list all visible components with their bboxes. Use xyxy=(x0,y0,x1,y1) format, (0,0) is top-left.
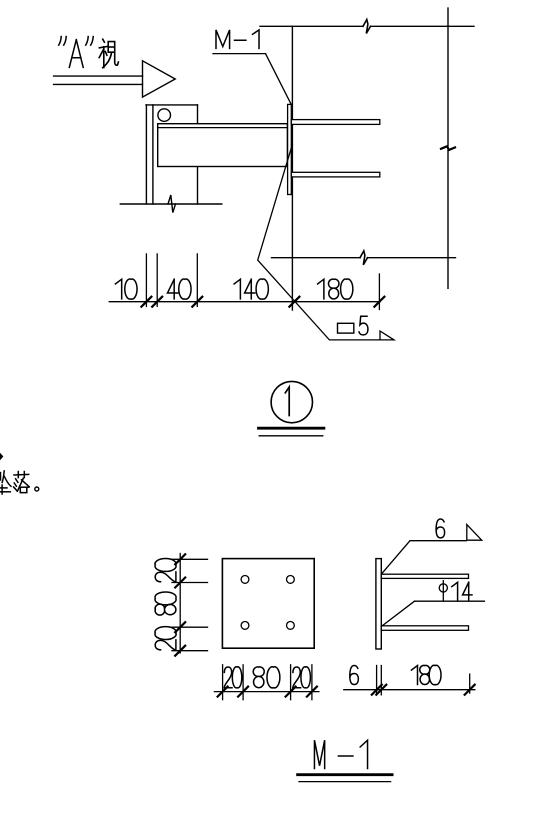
bracket top plate line xyxy=(146,104,198,106)
dim ticks xyxy=(141,297,384,307)
plug weld rectangle symbol xyxy=(338,323,354,333)
left dim ticks xyxy=(175,554,185,655)
M-1 leader line xyxy=(266,54,291,104)
title thick underline xyxy=(259,427,324,430)
extension line d xyxy=(378,274,380,310)
field weld flag xyxy=(380,331,394,340)
rotated dim text 20 (top) xyxy=(155,559,176,582)
extension line b xyxy=(156,254,158,307)
hole size 14 xyxy=(452,582,472,600)
extension line a xyxy=(145,254,147,307)
dim text 20 xyxy=(224,667,242,688)
extension line x4 xyxy=(311,665,313,700)
base plate (plan view) xyxy=(222,559,314,649)
extension line x2 xyxy=(242,665,244,700)
side plate (section view) xyxy=(376,559,381,649)
extension line y4 xyxy=(172,650,208,652)
CJK char 视 (view) hand-drawn xyxy=(99,39,118,67)
end plate M-1 (elevation) xyxy=(288,104,292,194)
break symbol on top line xyxy=(363,20,371,34)
top chord horizontal line xyxy=(260,25,363,27)
bolt hole bottom-right xyxy=(287,622,295,630)
top rail (section) xyxy=(381,574,468,578)
rotated dim text 20 (bottom) xyxy=(155,627,176,650)
beam top flange inner line xyxy=(158,127,288,129)
dim text 20 xyxy=(293,667,311,688)
title thin underline xyxy=(299,781,391,783)
section dim ticks xyxy=(372,685,475,695)
bolt hole bottom-left xyxy=(241,622,249,630)
dim text 40 xyxy=(167,279,191,299)
dim text 140 xyxy=(234,279,268,299)
weld size 5 xyxy=(359,316,368,335)
hole callout leader (horizontal) xyxy=(415,600,485,602)
weld size 6 xyxy=(436,519,445,538)
dim text 80 xyxy=(253,667,280,688)
break symbol on lower line xyxy=(360,251,368,265)
CJK char 落 hand-drawn xyxy=(14,472,29,493)
CJK full stop 。 xyxy=(35,487,39,491)
bolt hole top-left xyxy=(241,576,249,584)
bracket right edge xyxy=(197,105,199,204)
extension line x3 xyxy=(290,665,292,700)
M-1 label underline xyxy=(213,53,266,55)
title thick underline xyxy=(298,773,393,776)
extension line s2 xyxy=(380,666,382,695)
field weld flag xyxy=(467,525,482,541)
dim text 10 xyxy=(115,279,137,299)
clipped CJK char fragment (坠) xyxy=(0,471,11,494)
bolt hole top-right xyxy=(287,576,295,584)
bottom dimension line (plan view) xyxy=(214,691,319,693)
ground line xyxy=(120,203,222,205)
bottom dimension line (section view) xyxy=(344,689,475,691)
weld leader polyline (to plug weld symbol) xyxy=(258,144,381,340)
column face vertical line xyxy=(291,26,293,310)
post (vertical support, double line) xyxy=(145,105,147,204)
extension line s3 xyxy=(469,674,471,693)
lower rail (section) xyxy=(381,626,468,631)
label M-1 (top leader) xyxy=(216,30,259,49)
extension line x1 xyxy=(222,665,224,700)
right column vertical line xyxy=(447,8,449,146)
dim text 6 xyxy=(350,666,359,685)
extension line y3 xyxy=(172,626,208,628)
break symbol on ground line xyxy=(168,195,176,213)
lower rail xyxy=(291,172,380,177)
phi symbol xyxy=(439,584,447,592)
break symbol on right column line xyxy=(441,146,455,150)
rotated dim text 80 xyxy=(155,592,176,615)
dimension line (bottom of detail 1) xyxy=(109,301,380,303)
hole callout leader (diagonal) xyxy=(381,601,414,626)
left vertical dimension line xyxy=(179,554,181,654)
lower chord horizontal line xyxy=(272,257,361,259)
dim text 180 xyxy=(411,665,441,684)
view label "A" (quotes+A drawn as thin CAD strokes) xyxy=(59,37,93,68)
extension line y2 xyxy=(172,582,208,584)
weld leader 6 xyxy=(381,541,466,575)
dim text 180 xyxy=(318,279,353,299)
top rail xyxy=(291,120,380,125)
view arrow head (open triangle) xyxy=(143,61,176,97)
beam (white-filled rect hides bracket edge) xyxy=(158,124,288,167)
view direction arrow shaft (double line) xyxy=(54,75,143,77)
extension line s1 xyxy=(376,666,378,695)
detail title circle 1 xyxy=(271,381,312,422)
bolt circle on bracket xyxy=(158,109,171,122)
clipped note arrowhead at left edge xyxy=(0,453,3,460)
title thin underline xyxy=(259,435,323,437)
extension line y1 xyxy=(172,558,208,560)
extension line c xyxy=(196,254,198,307)
detail title M-1 xyxy=(314,740,367,768)
title numeral 1 xyxy=(285,387,289,416)
bottom dim ticks xyxy=(218,687,317,697)
